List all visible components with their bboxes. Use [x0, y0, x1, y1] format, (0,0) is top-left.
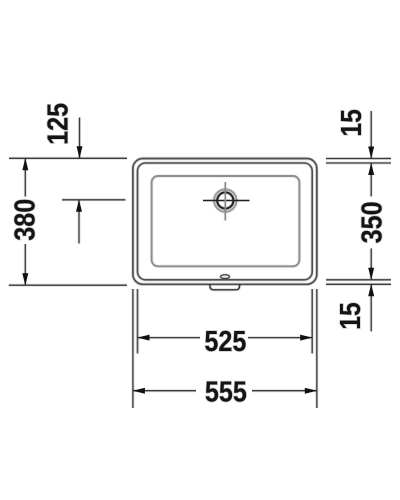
extension line rim inner bottom right — [326, 278, 391, 281]
extension line bottom edge left — [9, 284, 127, 287]
dimension 125 arrow up — [76, 200, 82, 212]
extension line bottom edge right — [326, 283, 391, 286]
dimension 15 bottom arrow up — [368, 284, 374, 296]
dimension 555 line right segment — [252, 389, 317, 392]
svg-text:15: 15 — [336, 109, 368, 136]
dimension 525 line left segment — [138, 336, 201, 339]
svg-text:380: 380 — [10, 199, 42, 241]
extension line 525 left vertical — [136, 289, 139, 354]
svg-text:15: 15 — [335, 302, 367, 330]
dimension 350 line lower segment — [370, 248, 373, 279]
drain inner circle — [217, 192, 233, 208]
dimension 15 top line — [370, 111, 373, 159]
dimension 15 bottom line — [370, 284, 373, 331]
dimension 380 line upper segment — [24, 158, 27, 196]
svg-text:525: 525 — [204, 326, 246, 358]
extension line 525 right vertical — [311, 289, 314, 354]
dimension 555 arrow left — [133, 388, 145, 394]
svg-text:555: 555 — [205, 376, 247, 408]
washbasin outer rim — [133, 159, 317, 285]
overflow hole oval — [221, 275, 230, 279]
dimension 15 top arrow down — [368, 147, 374, 159]
drain crosshair horizontal — [203, 199, 250, 202]
svg-text:350: 350 — [356, 201, 388, 243]
dimension 350 line upper segment — [370, 163, 373, 196]
drain crosshair vertical — [224, 182, 227, 221]
dimension 350 arrow up — [368, 163, 374, 175]
dimension 555 line left segment — [133, 389, 196, 392]
extension line drain center left — [62, 198, 126, 201]
extension line top edge left — [9, 157, 127, 160]
basin interior outline — [152, 176, 300, 266]
dimension 525 arrow left — [138, 335, 150, 341]
dimension 555 arrow right — [305, 388, 317, 394]
extension line rim inner top right — [326, 162, 391, 165]
extension line 555 right vertical — [315, 289, 318, 408]
svg-text:125: 125 — [43, 103, 75, 145]
dimension 525 line right segment — [248, 336, 312, 339]
dimension 380 arrow down — [22, 273, 28, 285]
dimension 525 arrow right — [300, 335, 312, 341]
dimension 125 upper line — [78, 118, 81, 159]
dimension 125 arrow down — [77, 146, 83, 158]
extension line 555 left vertical — [131, 289, 134, 408]
dimension 125 lower line — [78, 200, 81, 244]
washbasin rim inner edge — [138, 163, 313, 280]
overflow slot tab — [210, 284, 240, 290]
extension line top edge right — [326, 157, 391, 160]
dimension 350 arrow down — [368, 268, 374, 280]
dimension 380 arrow up — [22, 158, 28, 170]
dimension 380 line lower segment — [24, 244, 27, 285]
drain outer circle — [214, 189, 236, 211]
